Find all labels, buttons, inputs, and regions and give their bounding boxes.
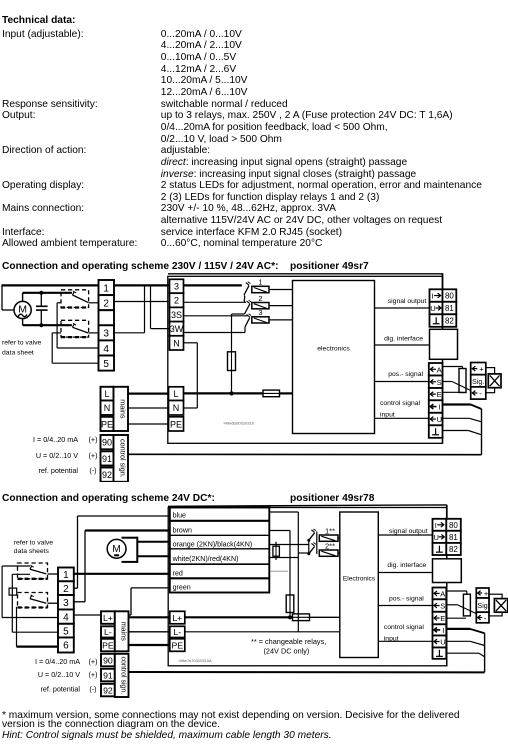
relay K1 DC <box>319 535 338 541</box>
contact arm 2 <box>245 304 250 314</box>
wire: white feed <box>269 557 298 559</box>
wire: X1.1 to device 3 <box>114 284 170 286</box>
svg-text:orange (2KN)/black(4KN): orange (2KN)/black(4KN) <box>173 541 253 549</box>
svg-text:L+: L+ <box>172 613 182 623</box>
wire: bottom return to terminal 91 <box>128 453 482 455</box>
wire: A to potentiometer DC <box>446 590 467 592</box>
svg-text:refer to valve: refer to valve <box>14 540 54 547</box>
wire: mains N to device <box>128 407 169 409</box>
wire: K3 to electronics <box>269 319 293 321</box>
outer box right-edge segments <box>442 327 444 330</box>
svg-text:I = 0/4..20 mA: I = 0/4..20 mA <box>35 657 80 666</box>
svg-text:92: 92 <box>103 685 113 695</box>
X connector box DC <box>494 599 507 613</box>
footnote text <box>0 709 508 722</box>
wire: motor to orange <box>137 541 170 543</box>
wire: control I loop DC <box>446 628 470 630</box>
wire: control U loop <box>443 417 470 419</box>
dig. interface connector box DC <box>433 559 462 583</box>
limit switch S1 (dashed box) <box>61 290 89 308</box>
wire: switch1 to terminal 2 <box>89 302 99 304</box>
signal output terminals DC 80 81 82 <box>433 519 447 531</box>
svg-text:Electronics: Electronics <box>343 576 376 583</box>
svg-text:(24V DC only): (24V DC only) <box>264 646 310 655</box>
capacitor C1 <box>40 293 42 307</box>
svg-text:3S: 3S <box>171 310 182 320</box>
wire: L mains to electronics <box>184 392 264 394</box>
heading scheme DC <box>0 492 508 505</box>
wire: 3W to contact 3 pivot <box>184 332 246 334</box>
wire: motor to white <box>137 555 170 557</box>
svg-text:(-): (-) <box>89 685 96 694</box>
wire: green to terminal 4 <box>131 587 170 589</box>
fuse F1 (vertical) <box>228 352 236 371</box>
svg-text:80: 80 <box>445 292 454 301</box>
wire: K2 to electronics <box>269 305 293 307</box>
wire: PE between blocks <box>129 644 170 646</box>
svg-text:I: I <box>439 403 441 412</box>
svg-text:M: M <box>112 544 120 555</box>
wire: E to potentiometer DC <box>446 617 466 619</box>
pos./control terminal column A S E I U perp <box>429 363 443 376</box>
svg-text:mains: mains <box>120 622 129 642</box>
junction dot motor-bottom / capacitor <box>39 323 43 327</box>
svg-text:Sig.: Sig. <box>472 379 484 386</box>
svg-text:green: green <box>173 584 191 592</box>
relay K3 <box>252 317 269 323</box>
wire: left drop to motor <box>1 284 3 310</box>
relay K2 <box>252 303 269 309</box>
svg-text:input: input <box>380 411 395 418</box>
wire: brown feed + fuse F3 (vertical) <box>269 530 290 532</box>
red stub (faint) <box>270 570 288 572</box>
svg-text:pos.- signal: pos.- signal <box>389 595 424 602</box>
wire: S wiper DC <box>446 604 457 606</box>
potentiometer (position feedback) <box>459 369 466 393</box>
wire: K1 to electronics <box>269 289 293 291</box>
wire: bottom return DC <box>129 671 485 673</box>
svg-text:refer to valve: refer to valve <box>2 339 42 346</box>
svg-text:ref. potential: ref. potential <box>38 466 78 475</box>
svg-text:I: I <box>435 521 437 530</box>
svg-text:S: S <box>437 378 442 387</box>
svg-text:2: 2 <box>63 584 69 595</box>
header underline / wire drop <box>168 505 447 506</box>
svg-text:control sign.: control sign. <box>119 439 128 478</box>
svg-text:M: M <box>18 303 27 315</box>
svg-text:90: 90 <box>103 655 113 665</box>
svg-text:E: E <box>437 390 442 399</box>
wire: E to potentiometer <box>443 391 463 393</box>
svg-text:2: 2 <box>174 296 179 306</box>
electronics box <box>293 281 375 434</box>
svg-text:A: A <box>440 589 445 598</box>
svg-text:ref. potential: ref. potential <box>40 685 80 694</box>
wire: motor bottom to switch 2 <box>22 319 24 326</box>
wire: switch2 to terminal 5 <box>52 332 61 334</box>
suppressor diode across motor wires <box>275 542 277 560</box>
wire: electronics to dig. interface <box>375 344 430 346</box>
contact arm 3 <box>245 318 250 328</box>
wire: electronics to control signal <box>375 417 429 419</box>
wire: L- between blocks <box>129 631 170 633</box>
svg-text:N: N <box>173 403 180 413</box>
contact arm 1 DC <box>307 539 310 542</box>
wire: switch2 to terminal 3 <box>89 332 99 334</box>
svg-text:1: 1 <box>103 283 109 294</box>
wire: electronics to control signal DC <box>378 640 432 642</box>
svg-text:(+): (+) <box>89 435 98 444</box>
junction dot motor-top / capacitor <box>39 291 43 295</box>
svg-text:U: U <box>434 533 439 542</box>
mechanical link contacts 1-2 <box>244 296 245 303</box>
device terminal strip (3 2 3S 3W N) <box>170 279 184 293</box>
svg-text:electronics: electronics <box>317 346 350 353</box>
svg-text:control signal: control signal <box>380 400 421 407</box>
terminal block X1 (valve side, 1-5) <box>99 280 115 295</box>
device outer enclosure box <box>168 276 443 443</box>
motor terminal bracket <box>122 537 138 539</box>
svg-text:I49w7s70410310A: I49w7s70410310A <box>179 658 212 663</box>
svg-text:U: U <box>440 638 445 647</box>
wire: electronics to pos signal <box>375 381 429 383</box>
svg-text:81: 81 <box>449 533 458 542</box>
svg-text:81: 81 <box>445 304 454 313</box>
contact arm 2 DC <box>307 552 310 555</box>
motor M (DC) <box>107 539 126 558</box>
svg-text:input: input <box>384 635 399 642</box>
svg-text:dig. interface: dig. interface <box>387 562 426 569</box>
svg-text:L-: L- <box>104 627 112 637</box>
svg-text:A: A <box>437 365 442 374</box>
wire: S4 to terminal 3 <box>48 602 59 604</box>
svg-text:** = changeable relays,: ** = changeable relays, <box>251 637 326 646</box>
wire: relay 2 feed (2) <box>184 301 247 303</box>
wire: control U loop DC <box>446 640 470 642</box>
svg-text:3: 3 <box>174 282 179 292</box>
svg-text:U: U <box>430 304 435 313</box>
svg-text:1: 1 <box>258 278 262 287</box>
svg-text:5: 5 <box>103 359 109 370</box>
wire: control ground loop DC <box>446 652 479 654</box>
wire: vertical link to X1.3 <box>144 285 146 332</box>
device outer enclosure box <box>168 508 447 666</box>
svg-text:signal output: signal output <box>389 528 428 535</box>
svg-text:PE: PE <box>101 419 113 429</box>
terminal block mains (L N PE) <box>101 387 114 401</box>
svg-text:(-): (-) <box>89 466 96 475</box>
svg-text:82: 82 <box>445 317 454 326</box>
svg-text:pos.- signal: pos.- signal <box>388 371 423 378</box>
wire: mains L to device <box>128 393 169 395</box>
svg-text:control signal: control signal <box>384 624 425 631</box>
wire: N loop to lower N <box>184 342 198 344</box>
svg-text:1**: 1** <box>325 527 335 536</box>
wire: relay 3 feed (3S) <box>184 315 248 317</box>
wire: contact 2 pivot to fuse <box>232 313 245 315</box>
svg-text:PE: PE <box>172 640 184 650</box>
wire: L+ between blocks <box>129 616 170 618</box>
link bar contacts DC <box>316 532 318 555</box>
bracket behind X box <box>486 368 495 393</box>
svg-text:L-: L- <box>173 627 181 637</box>
wire: net terminal1 top <box>2 284 99 286</box>
svg-text:I = 0/4..20 mA: I = 0/4..20 mA <box>33 435 78 444</box>
svg-text:white(2KN)/red(4KN): white(2KN)/red(4KN) <box>172 555 239 563</box>
svg-text:PE: PE <box>170 419 182 429</box>
motor M (valve actuator) <box>14 301 31 318</box>
svg-text:2**: 2** <box>325 542 335 551</box>
svg-text:U: U <box>437 415 442 424</box>
wire: S wiper diagonal <box>443 381 453 383</box>
wire: electronics to dig interface DC <box>378 572 432 574</box>
svg-text:L: L <box>173 389 178 399</box>
svg-text:+: + <box>484 589 489 598</box>
svg-text:82: 82 <box>449 545 458 554</box>
header underline / wire to terminal 80 <box>168 273 443 275</box>
device terminal strip (L N PE) <box>169 387 184 401</box>
wire: control I loop <box>443 403 471 405</box>
fuse F4 (horizontal) <box>293 614 310 621</box>
contact arm 1 <box>244 286 249 295</box>
heading scheme AC <box>0 260 508 273</box>
limit switch S4 (dashed) <box>18 593 48 608</box>
svg-text:control sign.: control sign. <box>120 657 127 695</box>
terminal block control DC (90 91 92) <box>101 654 115 667</box>
wire: X1.2 to device 2 <box>114 301 170 303</box>
svg-text:(+): (+) <box>89 657 98 666</box>
svg-text:dig. interface: dig. interface <box>384 336 423 343</box>
wire: orange feed to contacts <box>269 544 309 546</box>
svg-text:blue: blue <box>173 512 186 520</box>
wire: S3 to terminal 1 <box>48 573 59 575</box>
wire: A to potentiometer <box>443 366 463 368</box>
svg-text:(+): (+) <box>89 451 98 460</box>
svg-text:2: 2 <box>258 294 262 303</box>
svg-text:Sig: Sig <box>478 603 488 610</box>
wire: red to terminal 1 <box>74 573 170 575</box>
svg-text:I: I <box>432 292 434 301</box>
limit switch S2 (dashed box) <box>61 320 89 337</box>
wire: blue feed to contact 2 <box>269 511 298 513</box>
svg-text:80: 80 <box>449 521 458 530</box>
wire: vertical link to 3W <box>150 285 152 328</box>
svg-text:2: 2 <box>103 299 109 310</box>
potentiometer DC <box>463 594 470 616</box>
svg-text:6: 6 <box>63 641 69 652</box>
pos/control terminal column DC <box>433 588 447 600</box>
wire: brown to terminal 3 <box>85 529 170 531</box>
svg-text:5: 5 <box>63 626 69 637</box>
terminal block mains DC (L+ L- PE) <box>101 611 115 624</box>
svg-text:I: I <box>442 626 444 635</box>
terminal block control signal (90 91 92) <box>101 435 114 449</box>
svg-text:U = 0/2..10 V: U = 0/2..10 V <box>38 670 80 679</box>
svg-text:N: N <box>173 338 180 348</box>
X connector box <box>488 374 501 388</box>
svg-text:3W: 3W <box>170 324 184 334</box>
Sig sensor block <box>471 363 486 375</box>
wire: L+ to electronics via fuse <box>185 616 293 618</box>
junction dot L/fuse <box>229 391 233 395</box>
wire: electronics to pos signal DC <box>378 605 432 607</box>
svg-text:signal output: signal output <box>388 298 427 305</box>
wire: motor top to switch 1 <box>22 293 24 302</box>
svg-text:1: 1 <box>63 570 69 581</box>
svg-text:N: N <box>104 403 111 413</box>
svg-text:3: 3 <box>103 329 109 340</box>
wire: control ground loop <box>443 430 469 432</box>
svg-text:U = 0/2..10 V: U = 0/2..10 V <box>36 451 78 460</box>
wire: electronics to signal output DC <box>378 534 432 536</box>
svg-text:+: + <box>479 365 484 374</box>
svg-text:91: 91 <box>102 454 112 464</box>
wire: blue to terminal 2 <box>78 515 170 517</box>
Electronics box DC <box>340 512 379 658</box>
svg-text:data sheet: data sheet <box>2 349 34 356</box>
svg-text:90: 90 <box>102 438 112 448</box>
svg-text:92: 92 <box>102 470 112 480</box>
bracket behind X box DC <box>489 594 502 616</box>
wire colour legend block <box>170 508 269 593</box>
svg-text:data sheets: data sheets <box>14 548 50 555</box>
svg-text:3: 3 <box>63 598 69 609</box>
dig. interface connector box <box>430 329 458 359</box>
svg-text:4: 4 <box>63 612 69 623</box>
outer box right edge segments DC <box>446 555 448 559</box>
svg-text:E: E <box>440 614 445 623</box>
fuse F2 (horizontal) <box>263 390 280 397</box>
wire: relay 1 feed (3) <box>184 284 242 286</box>
svg-text:S: S <box>440 602 445 611</box>
svg-text:91: 91 <box>103 670 113 680</box>
valve outline wires left <box>1 566 3 618</box>
Sig sensor block DC <box>476 588 489 598</box>
svg-text:red: red <box>173 569 183 577</box>
wire: switch1 to terminal 4 <box>57 302 61 304</box>
wire: L- to electronics <box>185 631 340 633</box>
relay K1 <box>252 286 269 292</box>
svg-text:3: 3 <box>258 308 262 317</box>
svg-text:brown: brown <box>173 526 192 534</box>
relay K2 DC <box>319 550 338 556</box>
device terminal strip DC (L+ L- PE) <box>170 611 185 624</box>
svg-text:4: 4 <box>103 344 109 355</box>
terminal block X2 (valve side 1-6) <box>58 568 74 582</box>
wire: electronics to signal output <box>375 307 430 309</box>
svg-text:I49w5s60310310: I49w5s60310310 <box>224 421 255 426</box>
wire: mains PE to device <box>128 423 169 425</box>
svg-text:L+: L+ <box>103 613 113 623</box>
limit switch S3 (dashed) <box>18 563 48 579</box>
svg-text:L: L <box>104 389 109 399</box>
svg-text:PE: PE <box>102 640 114 650</box>
signal output terminals 80 81 82 <box>430 289 443 302</box>
svg-text:mains: mains <box>119 399 128 419</box>
svg-text:(+): (+) <box>89 670 98 679</box>
technical data text block <box>0 14 508 27</box>
